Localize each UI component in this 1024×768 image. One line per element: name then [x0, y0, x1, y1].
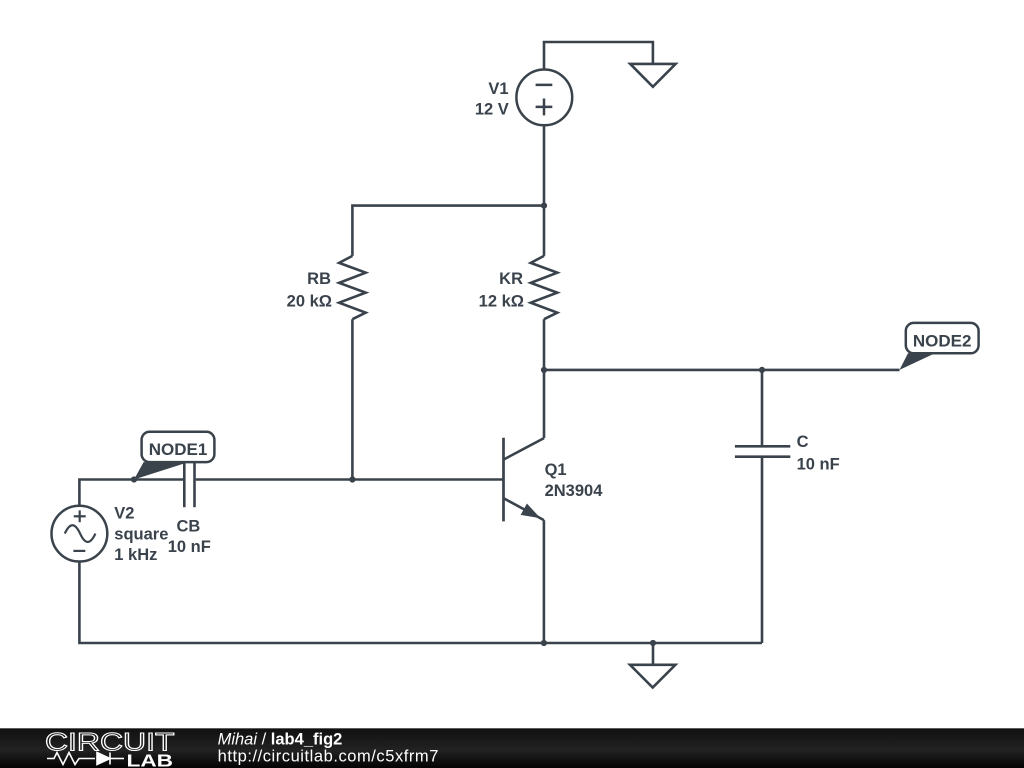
svg-text:10 nF: 10 nF — [168, 538, 211, 556]
svg-text:square: square — [114, 525, 168, 543]
wire ground stem — [652, 643, 655, 665]
resistor RB — [339, 256, 366, 319]
label KR 12 kΩ — [479, 270, 524, 311]
footer bar — [0, 728, 1024, 768]
label V2 square 1 kHz — [114, 505, 168, 564]
svg-text:V2: V2 — [114, 505, 134, 523]
svg-text:NODE2: NODE2 — [913, 331, 972, 350]
node junction base/RB — [349, 476, 355, 482]
svg-text:20 kΩ: 20 kΩ — [287, 293, 332, 311]
wire KR bottom — [543, 319, 546, 370]
svg-text:1 kHz: 1 kHz — [114, 546, 157, 564]
svg-text:V1: V1 — [488, 80, 508, 98]
wire RB bottom — [351, 319, 354, 479]
svg-text:12 V: 12 V — [475, 100, 509, 118]
wire V1 top to ground — [544, 42, 653, 71]
svg-text:KR: KR — [499, 270, 523, 288]
svg-text:RB: RB — [307, 270, 331, 288]
label V1 12 V — [475, 80, 509, 118]
logo squiggle resistor-diode — [47, 753, 124, 765]
wire top horizontal to RB — [352, 206, 544, 256]
voltage source V1 — [516, 70, 572, 126]
wire V1 bottom — [543, 125, 546, 205]
wire V2 to CB — [79, 480, 183, 506]
svg-text:LAB: LAB — [127, 750, 174, 768]
wire KR top — [543, 206, 546, 256]
svg-text:C: C — [797, 433, 809, 451]
wire base horizontal — [196, 478, 504, 481]
label RB 20 kΩ — [287, 270, 332, 311]
svg-text:Mihai / lab4_fig2: Mihai / lab4_fig2 — [218, 730, 343, 748]
node junction ground/bottom — [650, 640, 656, 646]
label Q1 2N3904 — [545, 461, 604, 500]
node NODE1 anchor dot — [131, 476, 137, 482]
node junction at C — [759, 367, 765, 373]
svg-text:CB: CB — [176, 518, 200, 536]
capacitor C — [735, 370, 790, 643]
node junction emitter/bottom — [541, 640, 547, 646]
svg-text:NODE1: NODE1 — [149, 440, 208, 459]
wire V2 bottom — [79, 562, 762, 644]
wire output horizontal — [544, 369, 900, 372]
svg-text:2N3904: 2N3904 — [545, 482, 604, 500]
node junction top — [541, 203, 547, 209]
svg-text:10 nF: 10 nF — [797, 455, 840, 473]
capacitor CB — [184, 452, 194, 507]
voltage source V2 — [52, 506, 108, 562]
svg-text:http://circuitlab.com/c5xfrm7: http://circuitlab.com/c5xfrm7 — [218, 748, 439, 766]
transistor Q1 — [504, 370, 545, 522]
label C 10 nF — [797, 433, 840, 473]
flag NODE2 — [900, 323, 979, 370]
flag NODE1 — [134, 432, 214, 480]
svg-text:12 kΩ: 12 kΩ — [479, 293, 524, 311]
wire emitter down — [543, 520, 546, 643]
ground (top right) — [630, 64, 675, 87]
svg-text:Q1: Q1 — [545, 461, 567, 479]
resistor KR — [531, 256, 558, 319]
node junction collector — [541, 367, 547, 373]
label CB 10 nF — [168, 518, 211, 556]
ground (bottom) — [630, 665, 675, 688]
